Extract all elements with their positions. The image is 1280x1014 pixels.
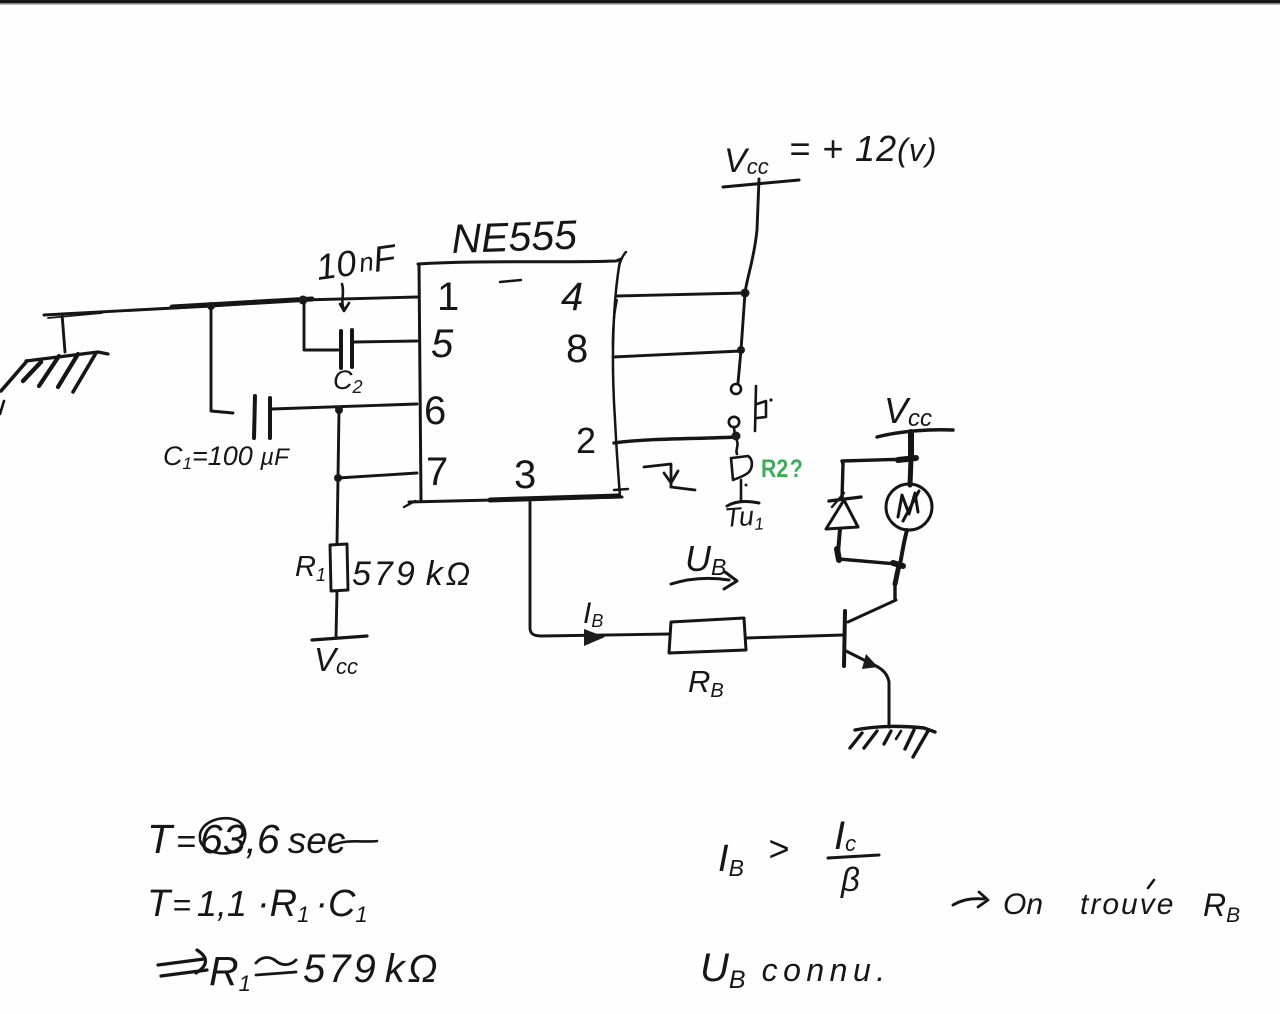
wire Vcc drop (745, 179, 759, 293)
diode TU1 (trigger) (727, 441, 759, 506)
ground (right) (850, 726, 935, 757)
svg-text:2: 2 (576, 420, 596, 461)
UB arrow (671, 572, 737, 589)
node E (pin4 tee) (741, 289, 750, 298)
wire pin 4 (616, 293, 745, 296)
svg-text:UBconnu.: UBconnu. (700, 946, 891, 994)
svg-text:>: > (768, 828, 789, 869)
wire pin 3 to RB (530, 502, 670, 636)
svg-text:7: 7 (426, 450, 448, 494)
svg-text:= + 12(v): = + 12(v) (789, 128, 937, 169)
wire to switch (738, 350, 741, 383)
wire pin 2 (614, 437, 736, 443)
label C2 arrow (340, 284, 349, 311)
output arrow (pin 3 marker) (614, 464, 695, 490)
transistor Q1 (844, 600, 896, 727)
svg-text:trouve: trouve (1080, 888, 1175, 921)
svg-text:C1=100 µF: C1=100 µF (163, 441, 290, 473)
note on trouve RB (953, 880, 1240, 927)
svg-text:On: On (1003, 888, 1043, 921)
svg-text:Tu1: Tu1 (723, 500, 764, 536)
svg-text:4: 4 (561, 275, 583, 319)
svg-text:5: 5 (431, 322, 454, 366)
wire pin 8 (613, 351, 741, 357)
svg-text:T=63,6sec: T=63,6sec (147, 816, 346, 862)
wire ground drop (62, 314, 65, 352)
formula R1 = 579k (158, 947, 440, 996)
svg-text:Vcc: Vcc (314, 641, 358, 679)
svg-text:Vcc: Vcc (884, 390, 932, 432)
svg-text:1: 1 (437, 275, 459, 319)
node A (junction C1 branch) (207, 302, 215, 310)
label Vcc motor (877, 390, 953, 437)
node B (junction C2 branch) (299, 296, 308, 305)
svg-text:10nF: 10nF (313, 236, 399, 288)
svg-text:Ic: Ic (834, 814, 856, 858)
wire C2 left branch (304, 301, 338, 350)
op-amp U1 NE555 box (404, 252, 626, 507)
motor M1 (886, 484, 932, 530)
ground (left) (0, 352, 108, 414)
IB arrowhead (584, 629, 605, 646)
node I (collector tee) (893, 563, 903, 566)
svg-text:RB: RB (688, 664, 724, 702)
power Vcc (below R1) (312, 636, 367, 679)
svg-text:Vcc: Vcc (724, 142, 769, 180)
wire C1 left branch (211, 306, 233, 413)
diode D1 (826, 493, 861, 529)
wire motor top (910, 459, 911, 485)
wire RB to base (746, 635, 843, 638)
capacitor C2 (341, 330, 352, 368)
formula T=63,6 sec (147, 816, 377, 862)
resistor RB (669, 618, 746, 653)
wire diode bottom (838, 529, 840, 553)
svg-text:β: β (840, 861, 860, 898)
wire main top net (ground to pin 1) (44, 297, 417, 318)
svg-text:T=1,1·R1·C1: T=1,1·R1·C1 (147, 883, 368, 927)
svg-text:6: 6 (424, 389, 446, 433)
node H (motor/diode tee) (898, 458, 916, 460)
wire between nodes (741, 293, 745, 350)
node F (pin8 tee) (737, 346, 745, 354)
svg-text:R1: R1 (209, 948, 251, 996)
wire pin 7 (338, 473, 417, 478)
wire diode branch vertical (842, 464, 843, 499)
svg-text:IB: IB (718, 838, 744, 881)
wire C2 to pin 5 (354, 341, 417, 342)
formula IB > Ic/beta (718, 814, 879, 898)
svg-text:579kΩ: 579kΩ (352, 555, 473, 593)
svg-text:8: 8 (566, 327, 588, 371)
svg-text:R1: R1 (295, 551, 326, 585)
wire R1 branch vertical (337, 410, 339, 544)
svg-text:IB: IB (583, 597, 603, 631)
node C (R1 branch top) (335, 406, 343, 414)
scan top border (0, 0, 1280, 5)
wire motor bottom (900, 530, 907, 564)
svg-text:NE555: NE555 (451, 212, 578, 262)
svg-text:3: 3 (514, 453, 536, 497)
wire collector drop (895, 566, 899, 584)
wire diode top branch (842, 459, 911, 464)
svg-text:RB: RB (1203, 887, 1240, 927)
svg-text:579kΩ: 579kΩ (303, 947, 440, 991)
svg-text:UB: UB (685, 538, 726, 580)
svg-text:R2?: R2? (761, 454, 803, 482)
node D (pin 7 tee) (334, 474, 342, 482)
wire Vcc stub (908, 432, 914, 459)
wire R1 to Vcc (336, 591, 337, 637)
wire C1 to pin 6 (272, 404, 417, 409)
switch S1 (pushbutton) (729, 384, 773, 437)
capacitor C1 (254, 396, 270, 438)
label Vcc supply top (723, 128, 937, 187)
node G (pin2 tee) (732, 432, 741, 441)
svg-text:C2: C2 (333, 365, 363, 397)
resistor R1 (330, 544, 348, 591)
